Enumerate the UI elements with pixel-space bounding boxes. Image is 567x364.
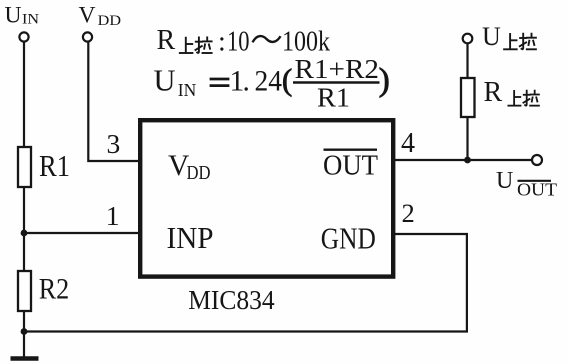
svg-text:INP: INP [167,220,214,255]
svg-text::: : [218,26,226,57]
svg-text:GND: GND [321,221,376,256]
svg-text:(: ( [282,63,292,97]
svg-text:R: R [484,77,503,108]
svg-text:U: U [482,22,501,51]
svg-text:.: . [243,66,250,98]
svg-text:OUT: OUT [323,150,378,182]
svg-text:IN: IN [178,80,197,100]
svg-text:1: 1 [106,200,120,231]
svg-text:R2: R2 [39,272,69,305]
svg-text:V: V [79,2,96,28]
svg-text:IN: IN [22,12,39,28]
svg-text:R: R [157,25,176,56]
svg-text:4: 4 [401,128,415,159]
svg-text:U: U [154,64,176,98]
svg-text:10: 10 [227,25,250,57]
svg-text:DD: DD [98,13,121,29]
svg-text:R1+R2: R1+R2 [295,53,380,84]
svg-text:DD: DD [187,163,211,184]
svg-text:U: U [496,168,513,194]
svg-text:R1: R1 [39,149,70,183]
svg-text:MIC834: MIC834 [188,284,275,315]
svg-text:R1: R1 [317,81,350,112]
svg-text:2: 2 [402,198,415,228]
svg-text:3: 3 [107,128,121,159]
svg-text:U: U [5,2,22,28]
svg-text:24: 24 [255,66,283,98]
svg-text:OUT: OUT [517,179,557,199]
svg-text:): ) [379,62,390,98]
